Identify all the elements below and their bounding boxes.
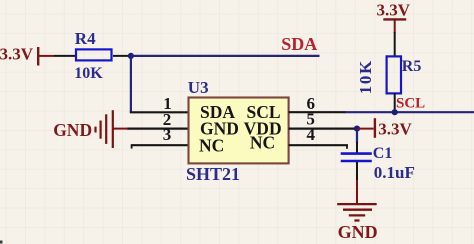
pin R4 right bbox=[113, 55, 131, 57]
svg-text:10K: 10K bbox=[74, 65, 103, 82]
crop artifact (stray mark bottom-left) bbox=[0, 241, 3, 244]
wire SDA horizontal bbox=[131, 55, 320, 57]
resistor R5 bbox=[356, 56, 421, 94]
resistor R4 bbox=[74, 29, 111, 82]
junction node (SCL / R5) bbox=[392, 109, 398, 115]
wire VDD junction down to C1 bbox=[356, 129, 358, 143]
svg-text:4: 4 bbox=[307, 125, 316, 144]
power port 3.3V (right middle) bbox=[357, 118, 413, 138]
pin 5 bbox=[289, 110, 357, 129]
svg-text:SDA: SDA bbox=[281, 34, 317, 54]
junction node (SDA / R4) bbox=[128, 53, 134, 59]
power port 3.3V (top right) bbox=[377, 1, 411, 33]
svg-text:C1: C1 bbox=[373, 145, 393, 162]
svg-text:GND: GND bbox=[53, 120, 92, 140]
pin R5 bottom bbox=[394, 93, 396, 112]
wire to ground bbox=[356, 180, 358, 204]
wire down to pin 1 bbox=[130, 56, 132, 112]
svg-text:3.3V: 3.3V bbox=[378, 119, 412, 138]
svg-text:3.3V: 3.3V bbox=[377, 1, 411, 20]
svg-text:GND: GND bbox=[338, 222, 378, 242]
power port GND (left, rotated earth) bbox=[96, 110, 129, 148]
wire / pin to R4 bbox=[54, 55, 77, 57]
svg-text:NC: NC bbox=[250, 133, 275, 153]
pin 4 bbox=[289, 125, 348, 149]
pin C1 bottom bbox=[356, 162, 358, 181]
pin 2 bbox=[127, 110, 188, 129]
pin 6 bbox=[289, 94, 346, 113]
svg-text:SHT21: SHT21 bbox=[186, 164, 240, 184]
junction node (VDD / C1) bbox=[354, 126, 360, 132]
svg-text:3.3V: 3.3V bbox=[0, 45, 34, 64]
power port GND (bottom, earth) bbox=[337, 204, 377, 220]
capacitor C1 bbox=[341, 154, 372, 161]
IC U3 body bbox=[189, 98, 289, 164]
pin C1 top bbox=[356, 142, 358, 153]
pin 3 bbox=[131, 125, 188, 149]
svg-text:R4: R4 bbox=[75, 29, 96, 48]
svg-text:0.1uF: 0.1uF bbox=[374, 163, 415, 182]
svg-text:R5: R5 bbox=[402, 58, 422, 75]
svg-text:U3: U3 bbox=[188, 78, 209, 97]
pin to R5 top bbox=[394, 32, 396, 57]
svg-text:3: 3 bbox=[163, 125, 172, 144]
wire SCL bbox=[345, 111, 474, 113]
svg-text:NC: NC bbox=[199, 136, 224, 156]
svg-text:SCL: SCL bbox=[396, 96, 425, 112]
svg-text:10K: 10K bbox=[356, 59, 375, 94]
pin 1 bbox=[130, 94, 188, 113]
power port 3.3V (left) bbox=[0, 45, 54, 66]
